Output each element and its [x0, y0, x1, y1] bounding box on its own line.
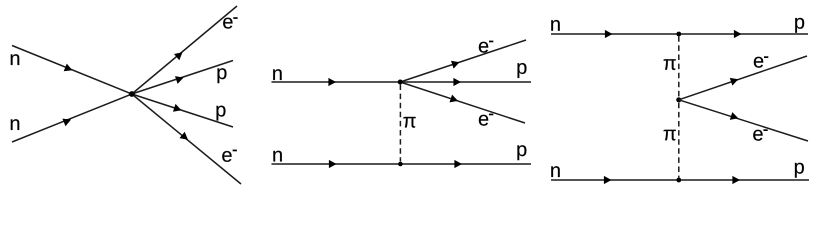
wire: dashed pion line lower segment (right diagram)	[678, 103, 680, 178]
wire: outgoing e- line (top)	[132, 6, 237, 94]
arrow on incoming n line 1	[64, 64, 73, 72]
arrow right on top line (right diagram)	[734, 30, 742, 38]
wire: outgoing e- line (lower, middle diagram)	[400, 82, 525, 123]
label n (bottom left, middle diagram)	[273, 151, 281, 162]
wire: outgoing e- line (lower, right diagram)	[679, 100, 808, 141]
label p (right, middle diagram)	[517, 63, 526, 78]
wire: outgoing e- line (upper, right diagram)	[679, 56, 807, 100]
label n (lower left)	[11, 119, 19, 130]
wire: outgoing e- line (bottom)	[132, 94, 241, 184]
label p (lower)	[216, 106, 225, 121]
arrow on outgoing e- bottom line	[180, 132, 189, 140]
wire: dashed pion line upper segment (right diagram)	[678, 36, 680, 97]
wire: top neutron propagator (middle diagram)	[272, 81, 401, 83]
arrow left on bottom line (middle diagram)	[329, 160, 337, 168]
wire: incoming neutron line 1 (upper left)	[12, 46, 132, 95]
label e- (lower, middle diagram)	[479, 115, 488, 126]
node: pi pi -> e e vertex (right diagram)	[676, 97, 681, 102]
wire: dashed pion propagator (middle diagram)	[399, 85, 401, 162]
node: pion absorption vertex on bottom line (middle diagram)	[398, 162, 403, 167]
wire: top n-to-p line (right diagram)	[551, 33, 808, 35]
label p (bottom right, right diagram)	[795, 163, 804, 178]
wire: incoming neutron line 2 (lower left)	[12, 94, 132, 142]
arrow on outgoing p lower line	[173, 104, 182, 112]
label e- (upper right diagram)	[754, 57, 763, 68]
arrow on top n line (middle diagram)	[328, 78, 336, 86]
arrow on lower e- line (middle diagram)	[450, 95, 459, 103]
arrow on upper e- line (middle diagram)	[451, 61, 460, 69]
label p (top right, right diagram)	[795, 18, 804, 33]
label pi (upper, right diagram)	[664, 59, 676, 70]
node: upper vertex (middle diagram)	[398, 80, 403, 85]
wire: bottom n-to-p line (right diagram)	[551, 179, 809, 181]
label e- (lower right diagram)	[753, 130, 762, 141]
node: 4-fermion contact vertex	[129, 91, 135, 97]
label n (top left, middle diagram)	[273, 69, 281, 80]
label e- (top)	[223, 18, 232, 29]
label n (bottom left, right diagram)	[551, 166, 559, 177]
arrow on lower e- line (right diagram)	[730, 112, 739, 120]
node: bottom pion emission vertex (right diagram)	[676, 178, 681, 183]
arrow on incoming n line 2	[62, 119, 71, 127]
arrow on upper e- line (right diagram)	[730, 78, 739, 86]
wire: outgoing p line (lower)	[132, 94, 233, 127]
label n (top left, right diagram)	[551, 20, 559, 31]
node: top pion emission vertex (right diagram)	[676, 32, 681, 37]
label p (bottom right, middle diagram)	[517, 145, 526, 160]
arrow right on bottom line (middle diagram)	[454, 160, 462, 168]
label pi (lower, right diagram)	[664, 130, 676, 141]
wire: bottom neutron-to-proton line (middle diagram)	[272, 163, 532, 165]
label e- (bottom)	[222, 151, 231, 162]
wire: outgoing p line (upper)	[132, 61, 233, 95]
label pi (middle diagram)	[403, 117, 415, 128]
arrow on outgoing p line (middle diagram)	[453, 78, 461, 86]
arrow on outgoing p upper line	[175, 76, 184, 84]
arrow left on top line (right diagram)	[605, 30, 613, 38]
label p (upper)	[217, 68, 226, 83]
label e- (upper, middle diagram)	[479, 42, 488, 53]
arrow on outgoing e- top line	[174, 52, 183, 60]
wire: outgoing p line (horizontal, middle diagram)	[400, 81, 531, 83]
wire: outgoing e- line (upper, middle diagram)	[400, 40, 526, 82]
arrow right on bottom line (right diagram)	[732, 176, 740, 184]
arrow left on bottom line (right diagram)	[604, 176, 612, 184]
label n (upper left)	[11, 54, 19, 65]
